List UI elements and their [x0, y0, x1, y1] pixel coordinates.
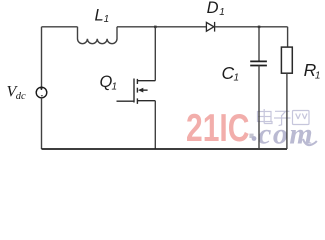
- capacitor C1: [250, 61, 267, 65]
- node capacitor junction: [258, 26, 261, 29]
- svg-text:dc: dc: [16, 91, 26, 102]
- label C1: [222, 63, 240, 84]
- channel segment drain: [136, 79, 138, 84]
- watermark chinese 电子网: [258, 109, 310, 126]
- gate lead: [117, 100, 135, 102]
- label D1: [207, 0, 225, 18]
- wire capacitor top lead: [258, 27, 260, 62]
- node drain junction: [154, 26, 157, 29]
- wire resistor top lead: [287, 27, 289, 47]
- svg-text:1: 1: [234, 73, 240, 84]
- label R1: [304, 60, 321, 81]
- svg-text:1: 1: [104, 14, 110, 25]
- svg-text:21IC: 21IC: [186, 106, 249, 150]
- wire left rail upper: [41, 27, 43, 87]
- wire left rail lower: [41, 98, 43, 149]
- label L1: [95, 7, 110, 26]
- svg-text:com: com: [258, 118, 314, 151]
- body arrow: [143, 89, 148, 91]
- wire source vertical: [154, 101, 156, 149]
- diode D1: [206, 22, 214, 32]
- watermark .com script: [252, 118, 317, 151]
- svg-text:1: 1: [315, 70, 321, 81]
- voltage source Vdc: [36, 87, 47, 98]
- source stub: [137, 100, 155, 102]
- wire resistor bottom lead: [286, 73, 288, 149]
- mosfet Q1: [117, 79, 156, 104]
- label Q1: [100, 73, 118, 92]
- label Vdc: [7, 83, 27, 102]
- wire capacitor bottom lead: [258, 66, 260, 150]
- wire bottom rail: [42, 148, 288, 150]
- channel segment source: [136, 98, 138, 104]
- resistor R1: [281, 47, 292, 73]
- wire drain vertical: [154, 27, 156, 81]
- svg-text:1: 1: [112, 81, 118, 92]
- wire top middle: [117, 26, 206, 28]
- gate bar: [133, 79, 135, 103]
- inductor L1: [78, 27, 118, 44]
- wire top right: [215, 26, 288, 28]
- channel segment body: [136, 88, 138, 93]
- svg-text:L: L: [95, 7, 104, 25]
- watermark 21IC.com logo: [186, 106, 254, 150]
- wire top-left horizontal: [42, 26, 78, 28]
- svg-text:D: D: [207, 0, 219, 17]
- mosfet arrowhead: [138, 88, 143, 93]
- svg-text:1: 1: [219, 7, 225, 18]
- drain stub: [137, 80, 155, 82]
